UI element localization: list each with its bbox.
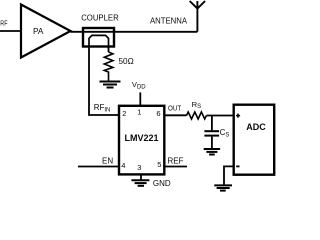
wire REF stub (164, 166, 188, 168)
ADC - input marker (236, 165, 239, 167)
wire OUT to RS (164, 114, 187, 116)
svg-text:1: 1 (137, 107, 141, 116)
label CS (220, 128, 230, 139)
wire junction to CS (211, 116, 213, 131)
node RF (0, 21, 7, 28)
antenna (190, 1, 205, 32)
svg-text:OUT: OUT (168, 103, 181, 112)
label COUPLER (81, 13, 119, 22)
wire RS to ADC + input (207, 115, 234, 117)
ground 50 ohm termination (100, 82, 121, 88)
pin 3 (137, 163, 141, 172)
svg-text:ANTENNA: ANTENNA (150, 17, 188, 26)
label REF (168, 157, 184, 166)
wire PA output to antenna (71, 31, 198, 33)
svg-text:50Ω: 50Ω (119, 57, 134, 66)
capacitor CS (204, 131, 219, 148)
svg-text:VDD: VDD (132, 80, 146, 90)
resistor RS (187, 112, 207, 119)
label GND (153, 179, 171, 188)
ADC + input marker (236, 114, 240, 118)
ADC block (234, 105, 275, 175)
svg-text:RF: RF (0, 21, 7, 28)
IC U1 LMV221 (119, 106, 164, 175)
ground ADC (214, 185, 232, 190)
ground GND pin (131, 180, 149, 186)
svg-text:RFIN: RFIN (94, 103, 111, 114)
pin 5 (157, 160, 161, 169)
wire VDD terminal to pin 1 (139, 92, 141, 105)
value label 50Ω (119, 57, 134, 66)
label EN (102, 157, 113, 166)
label OUT (168, 103, 181, 112)
wire ADC - input to ground (224, 166, 233, 184)
svg-text:EN: EN (102, 157, 113, 166)
label VDD supply (132, 80, 146, 90)
svg-text:GND: GND (153, 179, 171, 188)
ground CS (204, 149, 220, 155)
svg-text:RS: RS (192, 100, 202, 110)
svg-text:2: 2 (122, 109, 126, 118)
coupler coupled-line element (89, 35, 109, 47)
wire coupler tap to RFIN pin 2 (89, 46, 119, 115)
svg-text:5: 5 (157, 160, 161, 169)
svg-text:LMV221: LMV221 (124, 133, 158, 143)
resistor 50Ω termination (104, 52, 113, 81)
label ANTENNA (150, 17, 188, 26)
amplifier PA (21, 5, 71, 58)
svg-text:3: 3 (137, 163, 141, 172)
coupler box (83, 28, 114, 47)
label RFIN (94, 103, 111, 114)
pin 4 (121, 161, 125, 170)
svg-text:ADC: ADC (246, 122, 266, 132)
svg-text:4: 4 (121, 161, 125, 170)
wire coupler to 50 ohm termination (108, 46, 110, 52)
pin 6 (156, 109, 160, 118)
svg-text:COUPLER: COUPLER (81, 13, 119, 22)
pin 1 (137, 107, 141, 116)
svg-text:CS: CS (220, 128, 230, 139)
svg-text:REF: REF (168, 157, 184, 166)
wire RF to PA input (0, 30, 21, 32)
wire EN stub (78, 166, 120, 168)
wire GND pin 3 to ground (140, 175, 142, 180)
label RS (192, 100, 202, 110)
svg-text:6: 6 (156, 109, 160, 118)
svg-text:PA: PA (33, 26, 44, 36)
pin 2 (122, 109, 126, 118)
